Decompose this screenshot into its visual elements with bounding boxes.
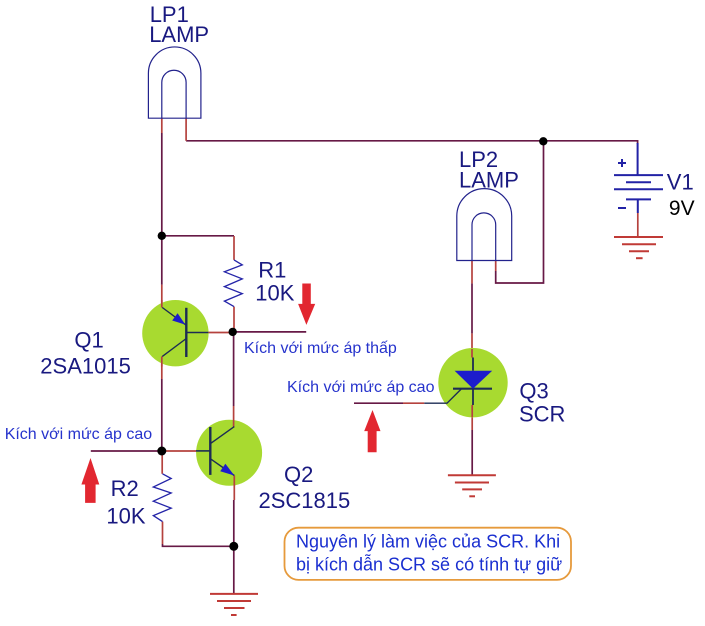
- svg-text:Q2: Q2: [284, 462, 313, 487]
- svg-text:9V: 9V: [669, 197, 695, 220]
- svg-text:Kích với mức áp thấp: Kích với mức áp thấp: [244, 340, 397, 357]
- svg-text:R1: R1: [258, 258, 286, 283]
- svg-text:Kích với mức áp cao: Kích với mức áp cao: [5, 426, 153, 443]
- svg-text:SCR: SCR: [519, 402, 565, 427]
- svg-text:V1: V1: [667, 169, 694, 194]
- svg-text:LAMP: LAMP: [459, 167, 519, 192]
- svg-text:Q1: Q1: [74, 328, 103, 353]
- svg-text:Kích với mức áp cao: Kích với mức áp cao: [287, 379, 435, 396]
- svg-text:2SC1815: 2SC1815: [259, 488, 351, 513]
- svg-text:bị kích dẫn SCR sẽ có tính tự: bị kích dẫn SCR sẽ có tính tự giữ: [296, 553, 562, 574]
- svg-text:10K: 10K: [106, 504, 145, 529]
- svg-text:Q3: Q3: [519, 378, 548, 403]
- svg-text:2SA1015: 2SA1015: [40, 354, 131, 379]
- svg-text:LAMP: LAMP: [149, 22, 209, 47]
- svg-text:Nguyên lý làm việc của SCR. Kh: Nguyên lý làm việc của SCR. Khi: [296, 532, 560, 552]
- svg-text:R2: R2: [111, 476, 139, 501]
- svg-text:10K: 10K: [255, 280, 294, 305]
